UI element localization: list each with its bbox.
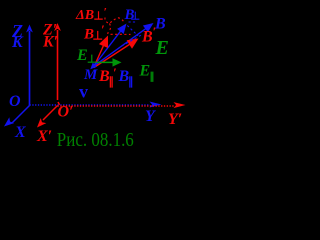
svg-text:Рис. 08.1.6: Рис. 08.1.6 [57, 129, 134, 151]
dashed leader from label dB-perp' to B-perp tip (red) [105, 18, 124, 24]
svg-text:X: X [14, 124, 26, 141]
svg-text:E: E [139, 63, 151, 80]
svg-text:O: O [9, 93, 21, 110]
svg-text:K′: K′ [42, 34, 58, 51]
dashed line B-perp' tip to B' tip (red) [111, 33, 131, 35]
axis Z (frame K) [29, 31, 31, 106]
svg-text:B: B [141, 29, 153, 46]
svg-text:⊥: ⊥ [131, 11, 141, 23]
svg-text:E: E [76, 47, 88, 64]
svg-text:′: ′ [104, 5, 107, 19]
svg-text:∥: ∥ [128, 76, 134, 88]
svg-text:′: ′ [101, 22, 105, 37]
svg-text:E: E [155, 37, 169, 59]
svg-text:∥: ∥ [150, 72, 155, 83]
dashed line B-perp tip down to B-prime head (blue) [127, 26, 138, 36]
svg-text:X′: X′ [36, 128, 52, 145]
dashed line under B-perp label (blue) [129, 21, 138, 23]
svg-text:Y: Y [145, 108, 156, 125]
dashed leader to B-perp-prime tip (red) [108, 24, 111, 37]
svg-text:′: ′ [113, 65, 117, 80]
axis X' (frame K') [43, 106, 58, 121]
svg-text:Y′: Y′ [168, 111, 182, 128]
axis Z' (frame K') [57, 30, 59, 100]
svg-text:ΔB: ΔB [75, 8, 94, 23]
vector B (blue) [94, 28, 146, 66]
vector B-perp' (red) [95, 44, 104, 65]
dashed line up to B-prime head (blue) [122, 35, 143, 47]
svg-text:O′: O′ [58, 104, 74, 121]
svg-text:v: v [79, 82, 88, 102]
axis Y' (frame K') dotted [58, 105, 175, 107]
vector E-parallel (green) [96, 61, 114, 63]
vector B' (red) [94, 43, 131, 67]
small arrow at point M (blue) [94, 63, 97, 66]
axis X (frame K) [12, 106, 30, 124]
svg-text:⊥: ⊥ [94, 11, 104, 23]
vector B-perp (blue) [95, 31, 121, 65]
axis Y (frame K) dotted [30, 104, 151, 106]
svg-text:K: K [11, 34, 24, 51]
svg-text:⊥: ⊥ [87, 54, 97, 66]
